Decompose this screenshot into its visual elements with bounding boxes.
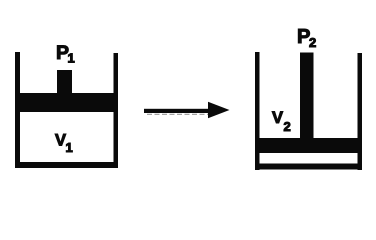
svg-text:1: 1 xyxy=(68,51,75,66)
svg-text:2: 2 xyxy=(284,119,291,134)
svg-text:1: 1 xyxy=(66,140,73,155)
arrow shaft xyxy=(144,109,212,113)
right cylinder bottom wall xyxy=(255,164,362,170)
left piston xyxy=(15,93,118,112)
right piston rod xyxy=(300,53,314,143)
svg-text:V: V xyxy=(55,132,66,150)
right piston xyxy=(255,138,362,153)
arrow head xyxy=(208,102,230,119)
left cylinder right wall xyxy=(114,53,119,168)
arrow shaft under-stroke xyxy=(147,113,209,115)
svg-text:2: 2 xyxy=(309,35,316,50)
left cylinder left wall xyxy=(15,52,20,168)
right cylinder left wall xyxy=(255,52,260,170)
svg-text:V: V xyxy=(272,109,283,127)
left cylinder bottom wall xyxy=(15,162,118,168)
right cylinder right wall xyxy=(358,53,363,170)
left piston rod xyxy=(57,70,72,95)
